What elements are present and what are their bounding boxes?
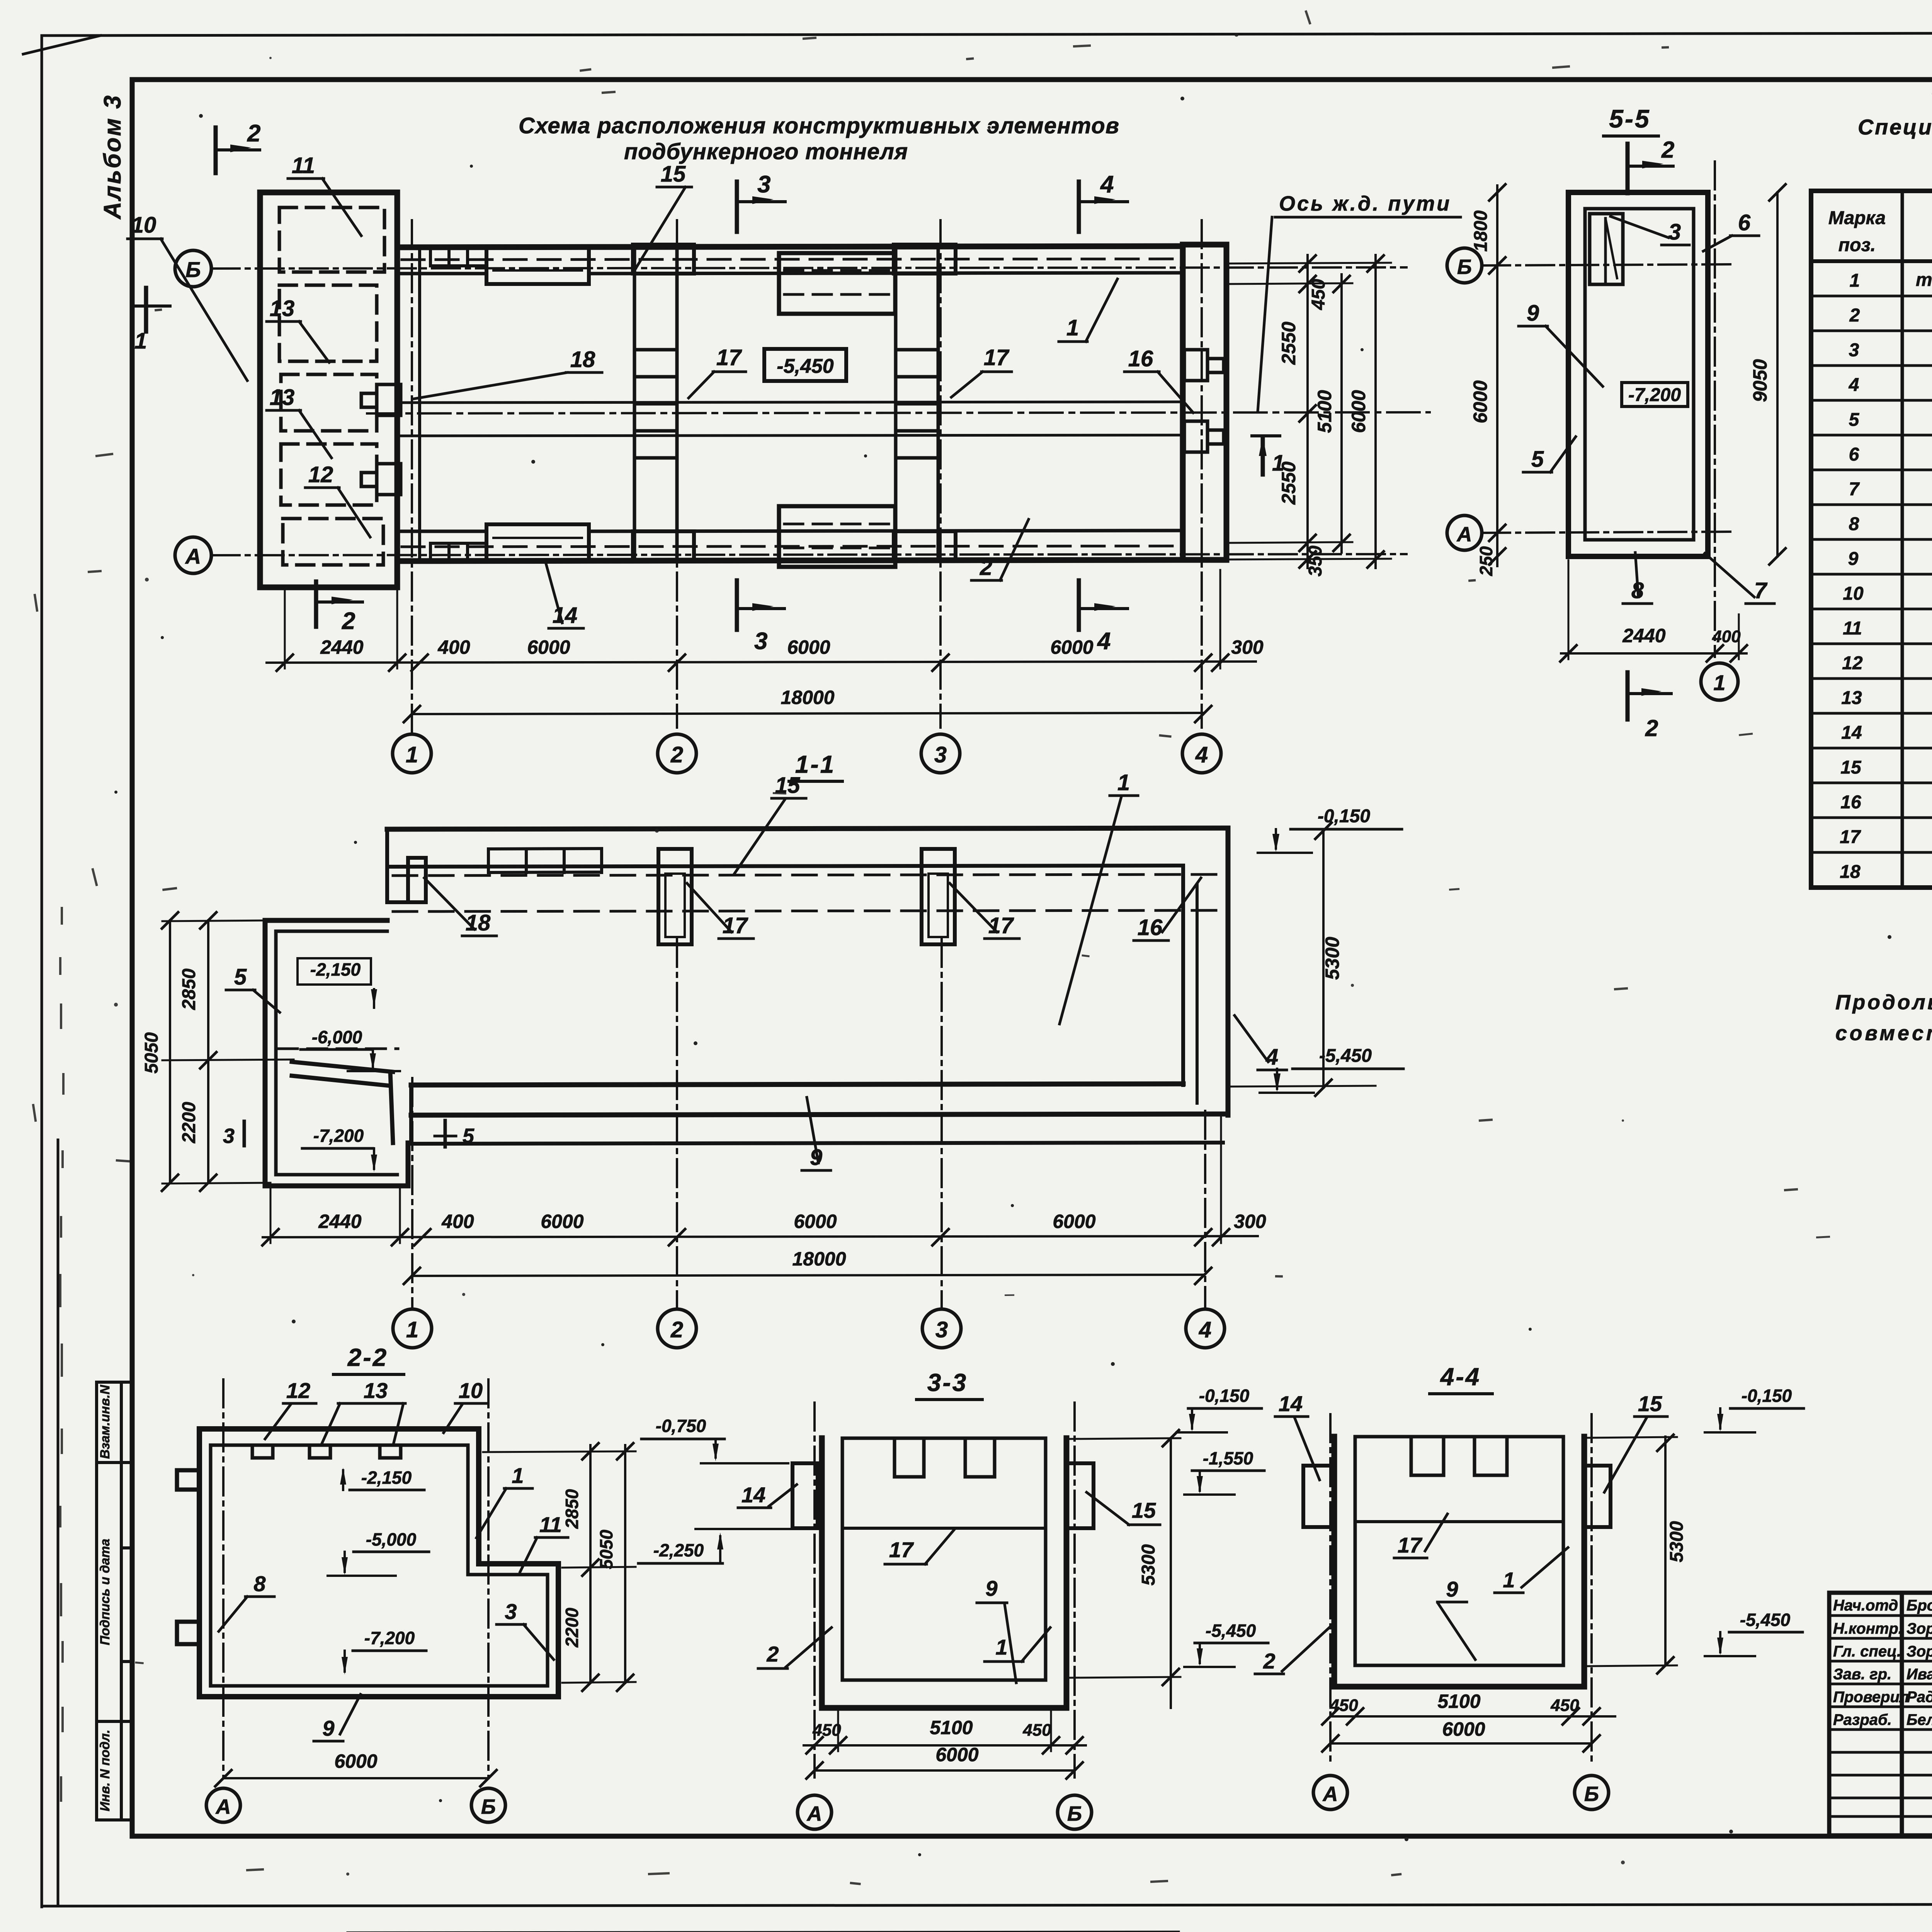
svg-text:6000: 6000: [1442, 1718, 1485, 1740]
plan: tunnel top wall dashed line: [402, 259, 1180, 260]
svg-text:15: 15: [661, 162, 686, 187]
svg-text:2550: 2550: [1278, 461, 1299, 505]
svg-text:450: 450: [812, 1721, 841, 1740]
svg-text:3: 3: [935, 1317, 948, 1342]
svg-text:16: 16: [1138, 915, 1163, 940]
1-1: right wall: [1226, 828, 1231, 1115]
svg-text:4: 4: [1195, 742, 1208, 767]
svg-text:Зав. гр.: Зав. гр.: [1833, 1666, 1891, 1683]
svg-text:2: 2: [766, 1642, 779, 1666]
plan: left block outer wall (pos 10/11 slabs): [260, 192, 397, 587]
svg-text:11: 11: [539, 1512, 562, 1537]
svg-text:3: 3: [754, 628, 767, 655]
svg-text:-7,200: -7,200: [364, 1628, 415, 1648]
svg-text:3: 3: [1668, 219, 1681, 245]
svg-text:1: 1: [1850, 270, 1860, 291]
4-4: bottom dimension 6000: [1330, 1742, 1592, 1745]
svg-text:2550: 2550: [1278, 321, 1299, 365]
svg-text:Зорин: Зорин: [1906, 1643, 1932, 1660]
3-3: bottom dimension 6000: [815, 1769, 1075, 1772]
svg-text:Белан: Белан: [1906, 1711, 1932, 1728]
plan: ригель fixture 18 upper: [361, 384, 401, 415]
svg-text:9: 9: [1848, 549, 1859, 569]
plan: right end wall: [1183, 245, 1226, 560]
plan: railway axis: [367, 412, 1430, 413]
svg-text:-2,250: -2,250: [653, 1540, 704, 1560]
svg-text:1: 1: [406, 1317, 418, 1342]
svg-text:4-4: 4-4: [1440, 1363, 1481, 1391]
3-3: axis А vertical: [813, 1403, 816, 1777]
plan: rail line top: [400, 402, 1183, 403]
svg-text:4: 4: [1849, 375, 1859, 395]
svg-text:1: 1: [1503, 1568, 1515, 1592]
svg-text:Б: Б: [481, 1795, 496, 1818]
1-1: top slab outer line: [387, 828, 1228, 829]
svg-text:17: 17: [1840, 827, 1861, 847]
3-3: left bracket 14: [793, 1463, 818, 1528]
plan: bottom dimension line 1: [267, 662, 1256, 663]
svg-text:6000: 6000: [541, 1211, 583, 1232]
5-5: axis circle Б: [1447, 248, 1482, 283]
5-5: axis А line: [1482, 532, 1735, 533]
svg-text:18000: 18000: [781, 687, 834, 708]
1-1: floor slab top: [411, 1084, 1183, 1085]
1-1: left dimension lines: [207, 920, 209, 1183]
svg-text:Спецификация к схеме расположе: Спецификация к схеме расположения констр…: [1858, 115, 1932, 139]
plan: grid axis 4: [1201, 220, 1203, 728]
svg-text:2440: 2440: [1622, 625, 1665, 646]
plan: axis А: [212, 554, 1406, 555]
svg-text:3: 3: [223, 1124, 235, 1148]
5-5: grid axis 1 vertical: [1714, 162, 1716, 657]
table rows: position numbers: [1840, 270, 1864, 882]
1-1: pit slanted slab: [292, 1062, 393, 1143]
plan: grid circle 2: [658, 734, 696, 773]
svg-text:14: 14: [742, 1483, 765, 1507]
svg-text:7: 7: [1754, 578, 1768, 603]
svg-text:совместно с ригелями Рм 2,: совместно с ригелями Рм 2, Рм 4, Рм 5.: [1835, 1022, 1932, 1045]
svg-text:6000: 6000: [1053, 1211, 1095, 1232]
2-2: top teeth: [252, 1445, 401, 1458]
plan: ригель fixture 18 lower: [361, 464, 401, 495]
plan: dashed slab (13): [279, 285, 377, 361]
svg-text:5300: 5300: [1321, 937, 1343, 980]
3-3: bottom dimension 450/5100/450: [804, 1744, 1086, 1747]
svg-text:2: 2: [1645, 715, 1658, 741]
plan: grid circle 4: [1182, 734, 1221, 773]
svg-text:11: 11: [292, 153, 315, 178]
svg-text:13: 13: [270, 296, 295, 321]
1-1: bottom slab (9) lower line: [411, 1143, 1223, 1144]
plan: dashed slab Пм2 (11): [279, 207, 384, 272]
svg-text:Схема расположения конструкт: Схема расположения конструктивных элемен…: [519, 113, 1121, 138]
svg-text:Радько: Радько: [1906, 1689, 1932, 1706]
svg-text:9: 9: [1527, 301, 1539, 326]
svg-text:6000: 6000: [1050, 636, 1093, 658]
plan: riser shaft at grid 3: [894, 245, 956, 561]
svg-text:-5,000: -5,000: [366, 1529, 417, 1549]
svg-text:А: А: [215, 1795, 231, 1818]
svg-text:А: А: [806, 1802, 822, 1825]
svg-text:5100: 5100: [1437, 1690, 1480, 1712]
svg-text:8: 8: [253, 1571, 266, 1596]
plan: grid circle 3: [921, 734, 960, 773]
2-2: right dimension 5050: [624, 1445, 626, 1683]
svg-text:10: 10: [459, 1378, 483, 1403]
1-1: top slab bottom line: [387, 866, 1183, 867]
plan: dashed slab (13): [281, 374, 377, 431]
svg-text:2: 2: [1263, 1649, 1275, 1673]
plan: axis Б: [212, 267, 1406, 269]
svg-text:-5,450: -5,450: [777, 355, 834, 378]
svg-text:8: 8: [1849, 514, 1859, 534]
svg-text:-5,450: -5,450: [1206, 1621, 1256, 1641]
svg-text:5100: 5100: [930, 1717, 973, 1738]
svg-text:2440: 2440: [320, 636, 363, 658]
svg-text:1: 1: [1117, 770, 1130, 795]
svg-text:12: 12: [1842, 653, 1863, 673]
svg-text:подбункерного тоннеля: подбункерного тоннеля: [624, 139, 910, 164]
svg-text:6000: 6000: [1348, 390, 1369, 433]
svg-text:400: 400: [1712, 627, 1741, 646]
svg-text:5: 5: [463, 1124, 474, 1148]
1-1: grid circle 4: [1186, 1309, 1225, 1348]
svg-text:-7,200: -7,200: [1628, 385, 1681, 405]
svg-text:14: 14: [553, 603, 578, 628]
svg-text:2200: 2200: [562, 1607, 582, 1648]
svg-text:6: 6: [1738, 210, 1751, 235]
svg-text:450: 450: [1329, 1696, 1358, 1715]
svg-text:400: 400: [441, 1211, 474, 1232]
svg-text:А: А: [185, 544, 201, 568]
svg-text:-6,000: -6,000: [312, 1027, 362, 1047]
table rows: designation column: [1916, 270, 1932, 881]
svg-text:6000: 6000: [527, 636, 570, 658]
3-3: right bracket 15: [1066, 1463, 1094, 1528]
plan: section marker 2 bottom: [314, 582, 318, 627]
1-1: grid circle 1: [393, 1309, 432, 1348]
svg-text:1: 1: [512, 1463, 524, 1488]
svg-text:-5,450: -5,450: [1740, 1610, 1791, 1630]
1-1: grid axes vertical: [412, 939, 1205, 1308]
svg-text:12: 12: [308, 462, 333, 487]
1-1: hanging riser 17 (grid 3): [922, 849, 955, 944]
svg-text:6000: 6000: [334, 1750, 377, 1772]
1-1: left pit inner wall: [276, 931, 397, 1175]
4-4: ригель level line: [1355, 1520, 1563, 1523]
3-3: ригель level line: [842, 1527, 1046, 1530]
1-1: dashed lines under slab: [393, 874, 1222, 876]
svg-text:2200: 2200: [179, 1102, 199, 1143]
svg-text:поз.: поз.: [1838, 235, 1876, 255]
3-3: axis Б vertical: [1073, 1403, 1076, 1777]
svg-text:1: 1: [1066, 315, 1079, 340]
svg-text:4: 4: [1199, 1317, 1211, 1342]
4-4: right bracket 15: [1584, 1466, 1611, 1527]
svg-text:2: 2: [1849, 305, 1860, 326]
svg-text:9: 9: [1446, 1577, 1458, 1601]
4-4: right dimension 5300: [1664, 1437, 1667, 1665]
4-4: axis Б vertical: [1590, 1414, 1593, 1764]
svg-text:Гл. спец.: Гл. спец.: [1833, 1643, 1901, 1660]
2-2: axis Б vertical: [487, 1379, 490, 1777]
plan: grid axis 1: [411, 220, 413, 733]
svg-text:300: 300: [1231, 636, 1264, 658]
svg-text:Н.контр.: Н.контр.: [1833, 1620, 1903, 1637]
svg-text:5: 5: [234, 964, 247, 990]
svg-text:5100: 5100: [1314, 390, 1335, 433]
svg-text:Б: Б: [1584, 1782, 1599, 1806]
svg-text:13: 13: [270, 385, 295, 410]
svg-text:6000: 6000: [787, 636, 830, 658]
svg-text:5: 5: [1849, 410, 1860, 430]
svg-text:тп 708-43.89: тп 708-43.89: [1916, 270, 1932, 290]
plan: level mark -5,450: [764, 349, 846, 381]
plan: riser shaft at grid 2: [633, 245, 694, 561]
svg-text:2850: 2850: [179, 968, 199, 1010]
1-1: floor slab bottom: [411, 1114, 1228, 1115]
4-4: bottom dimension 450/5100/450: [1330, 1715, 1615, 1718]
plan: section marker 4 bottom: [1077, 580, 1081, 630]
svg-text:400: 400: [437, 636, 470, 658]
svg-text:15: 15: [1840, 757, 1862, 778]
4-4: axis circle Б: [1575, 1776, 1609, 1810]
plan: top wall opening (15): [486, 247, 589, 284]
svg-text:2-2: 2-2: [347, 1344, 388, 1371]
plan: right dimension line 6000: [1374, 255, 1377, 568]
svg-text:450: 450: [1022, 1721, 1051, 1740]
svg-text:5050: 5050: [141, 1032, 162, 1073]
svg-text:2: 2: [247, 120, 260, 147]
1-1: bottom dimension line 1: [263, 1236, 1258, 1237]
plan: bottom wall opening (14): [486, 524, 589, 561]
plan: ригель fixture 16 lower: [1184, 421, 1224, 452]
svg-text:250: 250: [1476, 546, 1496, 576]
svg-text:18: 18: [570, 347, 595, 372]
plan: tunnel left wall line: [418, 247, 421, 561]
plan: section marker 3 bottom: [735, 580, 739, 630]
svg-text:Бродский: Бродский: [1906, 1597, 1932, 1614]
plan: grid axis 2: [676, 220, 678, 728]
2-2: axis circle А: [206, 1788, 240, 1822]
5-5: section marker 2 bottom: [1626, 672, 1630, 719]
svg-text:16: 16: [1128, 346, 1153, 371]
svg-text:1: 1: [134, 328, 147, 354]
5-5: bottom dimension 2440/400: [1561, 652, 1747, 655]
svg-text:5300: 5300: [1667, 1521, 1687, 1562]
svg-text:Взам.инв.N: Взам.инв.N: [98, 1384, 112, 1459]
svg-text:5-5: 5-5: [1609, 104, 1650, 133]
4-4: U channel outer wall: [1334, 1437, 1584, 1687]
4-4: U channel inner wall: [1355, 1437, 1563, 1665]
plan: section marker 4 top: [1077, 182, 1081, 232]
svg-text:-7,200: -7,200: [313, 1126, 364, 1146]
plan: dashed slab bottom: [283, 519, 383, 565]
svg-text:Зорин: Зорин: [1906, 1620, 1932, 1637]
svg-text:Продольные балки тоннеля Бм: Продольные балки тоннеля Бм3, Бм4 бетони…: [1835, 991, 1932, 1014]
svg-text:3: 3: [757, 171, 770, 198]
svg-text:1800: 1800: [1471, 210, 1491, 252]
svg-text:300: 300: [1234, 1211, 1266, 1232]
2-2: left bump lower: [177, 1622, 199, 1644]
plan: right dimension extension lines: [1226, 263, 1391, 560]
plan: tunnel top wall outer edge: [397, 246, 1183, 247]
3-3: right dimension 5300: [1170, 1438, 1172, 1708]
1-1: pit dashed level line: [278, 1048, 398, 1050]
svg-text:Подпись и дата: Подпись и дата: [98, 1539, 112, 1645]
svg-text:-0,150: -0,150: [1742, 1386, 1792, 1406]
5-5: level box -7,200: [1622, 383, 1688, 406]
plan: bottom dashed beam block Бм2: [779, 506, 895, 567]
left margin boxes: [97, 1382, 132, 1820]
2-2: right dimension 2850/2200: [589, 1445, 592, 1683]
svg-text:1: 1: [1713, 670, 1725, 695]
svg-text:Б: Б: [185, 257, 201, 282]
svg-text:18: 18: [1840, 862, 1861, 882]
plan: top wall beam cells near grid 1: [430, 250, 486, 266]
svg-text:9050: 9050: [1749, 359, 1771, 402]
svg-text:3: 3: [505, 1599, 517, 1624]
3-3: axis circle Б: [1058, 1795, 1092, 1829]
svg-text:17: 17: [984, 345, 1010, 370]
plan: grid circle 1: [393, 734, 431, 773]
5-5: grid circle 1: [1701, 663, 1738, 700]
svg-text:5300: 5300: [1138, 1544, 1159, 1585]
plan: dashed slab (12): [281, 444, 377, 505]
svg-text:Нач.отд: Нач.отд: [1833, 1597, 1898, 1614]
svg-text:-0,750: -0,750: [656, 1416, 706, 1436]
plan: right dimension line 5100: [1340, 274, 1343, 553]
2-2: inner wall line: [211, 1445, 548, 1686]
plan: top dashed beam block Бм2: [779, 253, 895, 314]
svg-text:17: 17: [716, 345, 742, 370]
5-5: axis Б line: [1482, 264, 1735, 265]
svg-text:14: 14: [1841, 723, 1862, 743]
svg-text:6000: 6000: [1469, 380, 1491, 423]
svg-text:16: 16: [1840, 792, 1861, 813]
svg-text:Марка: Марка: [1828, 208, 1886, 228]
1-1: grid circle 3: [922, 1309, 961, 1348]
svg-text:2: 2: [342, 608, 355, 634]
svg-text:2: 2: [1661, 137, 1674, 163]
svg-text:7: 7: [1849, 479, 1860, 500]
plan: section marker 1 left: [144, 288, 148, 332]
svg-text:5: 5: [1531, 447, 1544, 472]
1-1: bottom dimension line 2 (18000): [412, 1275, 1203, 1276]
plan: section marker 3 top: [735, 182, 739, 232]
table header texts: [1828, 207, 1932, 255]
svg-text:3-3: 3-3: [927, 1369, 968, 1396]
svg-text:-2,150: -2,150: [361, 1468, 412, 1488]
plan: section marker 1 right: [1261, 439, 1265, 474]
3-3: axis circle А: [798, 1795, 832, 1829]
svg-text:1: 1: [995, 1635, 1007, 1659]
5-5: inner wall: [1585, 209, 1694, 540]
svg-text:4: 4: [1265, 1044, 1278, 1070]
svg-text:3: 3: [1849, 340, 1859, 361]
svg-text:А: А: [1456, 523, 1472, 546]
svg-text:2440: 2440: [318, 1211, 361, 1232]
plan: tunnel bottom wall inner edge: [397, 530, 486, 533]
plan: section marker 2 top: [214, 128, 218, 173]
2-2: left bump upper: [177, 1470, 199, 1490]
4-4: axis А vertical: [1329, 1414, 1332, 1764]
1-1: left pit outer wall: [265, 920, 408, 1186]
svg-text:4: 4: [1097, 628, 1111, 655]
svg-text:350: 350: [1305, 546, 1326, 577]
5-5: outer wall: [1568, 192, 1708, 556]
5-5: section marker 2 top: [1626, 144, 1630, 193]
svg-text:11: 11: [1843, 618, 1862, 639]
3-3: U channel inner wall: [842, 1438, 1046, 1680]
svg-text:6000: 6000: [794, 1211, 837, 1232]
5-5: left dimension line: [1496, 185, 1498, 566]
svg-text:Б: Б: [1457, 255, 1472, 279]
plan: bottom wall beam cells near grid 1: [430, 543, 486, 558]
plan: tunnel top wall inner edge: [397, 272, 486, 276]
svg-text:13: 13: [1841, 688, 1862, 708]
plan: grid axis 3: [939, 220, 942, 728]
title block main frame: [1829, 1593, 1932, 1835]
plan: tunnel bottom wall outer edge: [397, 560, 1183, 561]
svg-text:14: 14: [1279, 1391, 1303, 1416]
svg-text:6: 6: [1849, 444, 1859, 465]
svg-text:10: 10: [131, 213, 156, 238]
plan: rail line bottom: [400, 435, 1183, 436]
svg-text:2: 2: [670, 1317, 683, 1342]
5-5: niche top-left: [1590, 214, 1623, 284]
svg-text:9: 9: [322, 1716, 334, 1740]
5-5: right dimension line 9050: [1776, 192, 1779, 556]
svg-text:-2,150: -2,150: [310, 959, 361, 980]
svg-text:-5,450: -5,450: [1319, 1046, 1372, 1066]
svg-text:450: 450: [1550, 1696, 1579, 1715]
svg-text:-0,150: -0,150: [1199, 1386, 1250, 1406]
svg-text:Б: Б: [1067, 1802, 1082, 1825]
plan: axis circle А: [175, 537, 211, 573]
2-2: bottom dimension 6000: [223, 1777, 488, 1779]
2-2: axis А vertical: [222, 1379, 224, 1777]
svg-text:Иванова: Иванова: [1906, 1666, 1932, 1683]
svg-text:17: 17: [889, 1537, 914, 1562]
plan: ригель fixture 16 upper: [1184, 350, 1224, 381]
svg-text:А: А: [1322, 1782, 1338, 1806]
plan: axis circle Б: [175, 250, 211, 287]
svg-text:1-1: 1-1: [795, 750, 836, 778]
1-1: top slab beam cells: [488, 849, 602, 872]
svg-text:17: 17: [1398, 1533, 1423, 1557]
svg-text:4: 4: [1100, 171, 1114, 198]
svg-text:6000: 6000: [935, 1744, 978, 1765]
2-2: axis circle Б: [471, 1788, 505, 1822]
5-5: axis circle А: [1447, 515, 1482, 550]
svg-text:10: 10: [1843, 583, 1864, 604]
svg-text:Инв. N подл.: Инв. N подл.: [98, 1730, 112, 1811]
4-4: axis circle А: [1313, 1776, 1347, 1810]
svg-text:1: 1: [406, 742, 418, 767]
svg-text:450: 450: [1308, 279, 1329, 310]
svg-text:Разраб.: Разраб.: [1833, 1711, 1892, 1728]
svg-text:3: 3: [934, 742, 947, 767]
svg-text:12: 12: [286, 1378, 310, 1403]
svg-text:-1,550: -1,550: [1203, 1448, 1253, 1468]
4-4: top slab line with teeth: [1355, 1435, 1563, 1439]
svg-text:9: 9: [985, 1576, 997, 1600]
3-3: U channel outer wall: [822, 1438, 1066, 1708]
svg-text:15: 15: [1132, 1498, 1156, 1522]
1-1: top slab left end: [387, 829, 426, 902]
1-1: right dimension 5300: [1322, 831, 1325, 1088]
